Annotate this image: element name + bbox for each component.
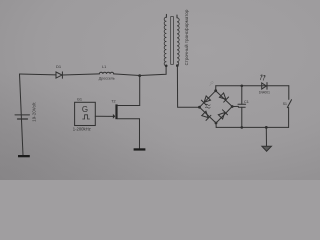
battery B1 plate short xyxy=(18,118,28,120)
LED VD5 xyxy=(262,83,267,90)
wire: L1 to drain node xyxy=(114,74,140,76)
svg-text:T2: T2 xyxy=(111,100,115,104)
wire: junction to primary bottom corner xyxy=(140,66,166,76)
wire: bottom output rail xyxy=(216,126,288,128)
wire: drain horizontal to channel xyxy=(118,105,140,107)
wire: down to ground triangle xyxy=(265,127,267,146)
wire: drain line down xyxy=(139,76,141,106)
svg-text:C1: C1 xyxy=(244,100,249,104)
transformer secondary top stub xyxy=(176,15,178,18)
node: bridge left corner dot xyxy=(198,106,201,109)
svg-text:19-20Volt: 19-20Volt xyxy=(31,102,36,122)
node: C1 bottom rail dot xyxy=(241,126,244,129)
wire: C1 bottom lead xyxy=(241,107,243,127)
svg-text:G1: G1 xyxy=(77,97,82,102)
wire: top horizontal from battery to D1 xyxy=(20,73,57,76)
wire: bridge right corner to C1 xyxy=(233,105,238,107)
bridge diode VD1 xyxy=(201,96,210,105)
wire: D1 to L1 xyxy=(63,74,100,75)
battery B1 plate long xyxy=(15,114,30,116)
inductor L1 xyxy=(99,72,113,74)
node: C1 top rail dot xyxy=(241,85,244,88)
wire: source down to ground xyxy=(139,119,141,149)
node: secondary bottom dot xyxy=(176,64,179,67)
LED arrows xyxy=(260,75,265,81)
switch S1 lever xyxy=(287,100,291,108)
wire: generator to gate xyxy=(95,115,113,117)
wire: secondary to bridge left corner xyxy=(177,66,199,108)
node: bridge right corner dot xyxy=(231,105,234,108)
node: bridge bottom corner dot xyxy=(215,122,218,125)
svg-text:Дроссель: Дроссель xyxy=(99,77,115,81)
wire: bridge edge bottom-right xyxy=(216,107,232,124)
ground bar under T2 xyxy=(134,148,146,150)
node: ground junction dot xyxy=(265,126,268,129)
node: primary bottom dot xyxy=(165,65,168,68)
node: bridge top corner dot xyxy=(214,89,217,92)
diode D1 xyxy=(56,72,62,78)
AC arcs near top stub xyxy=(210,81,214,86)
svg-text:L1: L1 xyxy=(102,65,106,69)
wire: bridge edge bottom-left xyxy=(200,107,217,123)
wire: bridge bottom stub xyxy=(215,123,217,127)
svg-text:1N4001: 1N4001 xyxy=(259,91,270,95)
wire: bridge edge top-right xyxy=(216,91,233,107)
square pulse symbol xyxy=(83,115,90,119)
wire: C1 top lead xyxy=(241,86,243,104)
svg-text:S1: S1 xyxy=(283,102,287,106)
bridge diode VD3 xyxy=(201,111,210,120)
wire: top output rail xyxy=(216,85,289,87)
svg-text:G: G xyxy=(82,105,88,114)
ground triangle right xyxy=(262,146,272,151)
transformer TR1 primary winding xyxy=(164,17,166,66)
svg-text:1-200kHz: 1-200kHz xyxy=(73,126,91,131)
svg-text:Строчный трансформатор: Строчный трансформатор xyxy=(184,9,189,65)
wire: source horizontal xyxy=(118,118,140,120)
svg-text:D1: D1 xyxy=(56,64,62,69)
AC mark inside bridge xyxy=(205,104,210,108)
wire: bridge top stub xyxy=(215,86,217,91)
node: drain junction dot xyxy=(138,74,141,77)
background paper xyxy=(0,0,320,180)
transformer primary top stub xyxy=(165,14,167,17)
bridge diode VD4 xyxy=(218,110,227,119)
wire: right column top xyxy=(288,86,290,100)
transformer core xyxy=(171,17,174,65)
capacitor C1 xyxy=(238,104,246,107)
transformer TR1 secondary winding xyxy=(177,18,179,66)
ground bar bottom-left xyxy=(18,155,30,157)
transistor T2 gate arrow xyxy=(113,114,115,119)
transistor T2 channel bar xyxy=(115,104,117,119)
wire: bridge edge top-left xyxy=(200,91,216,108)
generator U1 box xyxy=(75,102,96,125)
wire: right column bottom xyxy=(288,107,290,127)
wire: left vertical battery feed xyxy=(20,74,24,155)
bridge diode VD2 xyxy=(219,93,228,102)
